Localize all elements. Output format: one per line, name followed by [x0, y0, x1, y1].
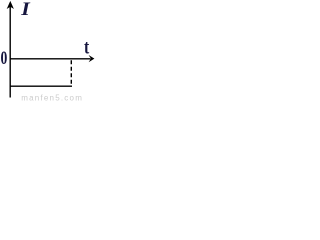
svg-text:manfen5.com: manfen5.com [21, 94, 83, 103]
svg-text:0: 0 [1, 47, 8, 69]
svg-text:I: I [20, 0, 31, 20]
svg-text:t: t [84, 35, 89, 57]
